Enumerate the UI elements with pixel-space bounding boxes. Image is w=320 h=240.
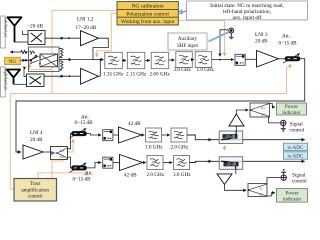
op-amp U5 (42 dB upper) bbox=[119, 127, 142, 143]
op-amp U7 (42 dB lower) bbox=[120, 155, 143, 171]
wire: junction into filter chain bbox=[93, 59, 103, 61]
wire: AT2 to equalizer B2 bbox=[87, 134, 102, 135]
yellow control box stack bbox=[117, 2, 178, 26]
wire FB1-FB2 bbox=[163, 162, 172, 164]
coupler X2 (directional coupler) bbox=[27, 74, 45, 87]
matching load resistor for NG (zigzag) bbox=[10, 50, 28, 53]
transfer switch inner crossed box bbox=[39, 54, 57, 67]
svg-text:Polarization control: Polarization control bbox=[126, 11, 169, 17]
svg-text:LNI 4: LNI 4 bbox=[30, 130, 43, 136]
power indicator 2 bbox=[277, 189, 308, 203]
matching load 2 (vertical zigzag) bbox=[59, 61, 63, 70]
wire: B2 to amp bbox=[113, 134, 118, 136]
wire: U6 to splitter X3 bbox=[236, 110, 248, 114]
wire: antenna A2 to coupler X2 bbox=[14, 83, 27, 85]
node: selector junction bbox=[99, 59, 101, 61]
op-amp U3 (LNI 3) bbox=[257, 51, 279, 68]
wire: AT3 to equalizer B3 bbox=[87, 163, 102, 168]
wire: U1 output loop to polarization selector bbox=[93, 38, 108, 59]
svg-text:LNI 3: LNI 3 bbox=[255, 32, 268, 38]
svg-text:20 dB: 20 dB bbox=[30, 137, 43, 143]
svg-text:0−15 dB: 0−15 dB bbox=[75, 120, 94, 126]
equalizer B2 bbox=[103, 130, 113, 141]
svg-text:left-hand polarization,: left-hand polarization, bbox=[223, 8, 272, 15]
op-amp U6 (detector amp up) bbox=[229, 114, 244, 126]
op-amp U2 (LNA bottom) bbox=[81, 68, 99, 84]
op-amp U8 (detector amp down) bbox=[217, 174, 232, 185]
svg-text:17−20 dB: 17−20 dB bbox=[76, 25, 97, 31]
op-amp U4 (LNI 4) bbox=[23, 145, 43, 159]
filter FB1 bbox=[147, 156, 163, 170]
svg-text:to ADC: to ADC bbox=[288, 154, 305, 160]
svg-text:2.15 GHz: 2.15 GHz bbox=[126, 72, 147, 78]
coupler C1 (-20 dB) bbox=[219, 131, 243, 144]
aux input connector (circle with dot) bbox=[229, 28, 234, 33]
wire: U3 to attenuator bbox=[279, 58, 286, 60]
wire: orange polarization control drop to selector switch bbox=[97, 13, 117, 56]
svg-text:amplification: amplification bbox=[21, 186, 49, 193]
wire: orange stub at coupler 1 bbox=[224, 146, 226, 151]
wire: NG injection stub into X1 bbox=[23, 31, 29, 35]
wire: orange control to lower attenuator bbox=[38, 172, 86, 178]
svg-text:NG calibration: NG calibration bbox=[132, 4, 164, 10]
svg-text:1.0 GHz: 1.0 GHz bbox=[145, 145, 163, 151]
antenna A1 bbox=[7, 17, 22, 42]
svg-text:Working from aux. input: Working from aux. input bbox=[121, 18, 175, 25]
wire: orange long tract-control line across middle bbox=[10, 67, 286, 189]
svg-text:control: control bbox=[290, 128, 305, 134]
initial state note box bbox=[187, 1, 308, 21]
wire: X4 to power indicator 2 bbox=[267, 193, 275, 196]
svg-text:Left-hand pol.: Left-hand pol. bbox=[3, 18, 7, 39]
wire F3-F4 bbox=[169, 59, 175, 61]
internal load resistor of transfer switch bbox=[30, 51, 36, 53]
filter FA1 bbox=[146, 128, 162, 142]
wire: U8 to splitter X4 bbox=[225, 185, 247, 191]
svg-text:0−15 dB: 0−15 dB bbox=[279, 41, 298, 47]
svg-text:Right-hand pol.: Right-hand pol. bbox=[3, 69, 7, 92]
wire F4-F5 bbox=[192, 59, 194, 61]
wire: antenna A1 to coupler X1 bbox=[15, 41, 29, 43]
svg-text:42 dB: 42 dB bbox=[128, 121, 141, 127]
attenuator AT2 (upper tract) bbox=[70, 129, 87, 138]
wire: NG line into X2 with arrow bbox=[24, 69, 27, 77]
wire: U7 to filter FB1 bbox=[143, 162, 146, 164]
detector D2 (circle) bbox=[281, 175, 286, 180]
wire: X2 to LNA U2 bbox=[44, 75, 64, 77]
ground above D2 bbox=[281, 170, 286, 175]
filter F4 bbox=[176, 52, 193, 68]
svg-text:aux. input off: aux. input off bbox=[232, 14, 261, 21]
attenuator AT3 (lower tract) bbox=[70, 163, 87, 172]
svg-text:Att.: Att. bbox=[282, 34, 290, 40]
wire: X3 to signal control detector bbox=[269, 117, 281, 123]
svg-text:LNI 1,2: LNI 1,2 bbox=[77, 17, 94, 23]
svg-text:3.0 GHz: 3.0 GHz bbox=[174, 67, 192, 73]
wire: splitter to upper attenuator bbox=[68, 134, 72, 149]
antenna A2 bbox=[6, 70, 21, 85]
power splitter PS1 bbox=[51, 147, 68, 160]
filter F3 bbox=[151, 52, 169, 68]
svg-text:1.35 GHz: 1.35 GHz bbox=[103, 72, 124, 78]
svg-text:1.0 GHz: 1.0 GHz bbox=[197, 67, 215, 73]
filter FA2 bbox=[171, 128, 187, 142]
splitter X3 bbox=[250, 103, 270, 118]
label box: Right-hand pol. bbox=[1, 67, 8, 97]
blue state arrow to aux connector bbox=[209, 32, 229, 42]
auxiliary SHF input box bbox=[168, 33, 207, 50]
equalizer B3 bbox=[103, 157, 113, 168]
svg-text:−20 dB: −20 dB bbox=[225, 163, 237, 167]
to ADC box 2 bbox=[284, 152, 308, 160]
wire: B1 to U3 bbox=[246, 58, 257, 60]
svg-text:−20 dB: −20 dB bbox=[27, 24, 43, 30]
wire FA1-FA2 bbox=[162, 134, 170, 136]
wire: orange top attenuator control arrow bbox=[287, 64, 291, 67]
wire F2-F3 bbox=[145, 59, 150, 61]
wire: aux connector drop to main line bbox=[220, 30, 228, 56]
wire: FB2 to coupler C2 and main output arrow bbox=[190, 161, 305, 162]
svg-text:2.60 GHz: 2.60 GHz bbox=[150, 72, 171, 78]
equalizer B1 bbox=[235, 54, 245, 65]
filter F1 bbox=[105, 52, 123, 68]
svg-text:control: control bbox=[292, 178, 307, 184]
svg-text:to ADC: to ADC bbox=[288, 145, 305, 151]
svg-text:indicator: indicator bbox=[282, 110, 301, 116]
ground under aux connector bbox=[229, 33, 234, 39]
filter FB2 bbox=[174, 156, 190, 170]
svg-text:control: control bbox=[28, 194, 43, 200]
wire F1-F2 bbox=[122, 59, 126, 61]
attenuator AT1 (0-15 dB, top) bbox=[283, 54, 300, 63]
transfer switch S1 (outer box) bbox=[29, 47, 60, 72]
wire: FA2 to coupler C1 and main output arrow bbox=[187, 135, 305, 140]
label box: Left-hand pol. bbox=[1, 16, 8, 48]
matching load 1 (vertical zigzag) bbox=[59, 49, 63, 58]
wire: C2 coupled port to detector amp bbox=[235, 169, 237, 174]
wire: U5 to filter FA1 bbox=[142, 134, 145, 136]
wire: feedback line to lower tract (down right, across, to LNI4) bbox=[16, 59, 305, 152]
svg-text:indicator: indicator bbox=[283, 196, 302, 202]
wire: U4 to splitter bbox=[43, 151, 51, 153]
splitter X4 bbox=[248, 184, 267, 198]
op-amp U1 (LNA top) bbox=[81, 31, 99, 46]
svg-text:3.0 GHz: 3.0 GHz bbox=[173, 172, 191, 178]
to ADC box 1 bbox=[284, 143, 308, 151]
coupler C2 (-20 dB) bbox=[219, 157, 243, 170]
tract amplification control box bbox=[14, 179, 57, 202]
svg-text:20 dB: 20 dB bbox=[255, 39, 268, 45]
wire: orange control bus top (NG calibration) bbox=[52, 10, 117, 93]
NG source box bbox=[5, 57, 21, 65]
wire: X3 to power indicator 1 bbox=[270, 104, 275, 108]
wire: X4 to signal control detector 2 bbox=[267, 178, 281, 184]
wire: U2 output to polarization selector bbox=[98, 60, 100, 77]
detector D1 (circle) bbox=[281, 120, 286, 125]
svg-text:NG: NG bbox=[9, 59, 17, 65]
svg-text:42 dB: 42 dB bbox=[124, 173, 137, 179]
wire: F5 to equalizer with junctions bbox=[212, 59, 234, 61]
wire: orange aux-input control drop bbox=[178, 21, 224, 56]
wire: splitter to lower attenuator bbox=[68, 157, 72, 168]
wire: transfer switch main output bbox=[59, 59, 72, 61]
svg-text:Auxiliary: Auxiliary bbox=[178, 37, 198, 42]
svg-text:Att.: Att. bbox=[85, 171, 93, 177]
switch: NG to load / to coupler bbox=[20, 52, 37, 61]
svg-text:2.0 GHz: 2.0 GHz bbox=[147, 172, 165, 178]
power indicator 1 bbox=[277, 103, 307, 116]
wire: orange branch to NG switch with up arrow bbox=[30, 64, 53, 70]
svg-text:2.0 GHz: 2.0 GHz bbox=[171, 145, 189, 151]
wire: X1 to LNA U1 bbox=[45, 37, 64, 39]
wire: B3 to amp U7 bbox=[113, 162, 119, 164]
svg-text:SHF input: SHF input bbox=[177, 44, 198, 49]
wire: C1 coupled port to detector amp bbox=[235, 126, 237, 131]
svg-text:Tract: Tract bbox=[30, 181, 41, 187]
ground under D1 bbox=[281, 126, 286, 132]
blue state arrow at polarization control bbox=[178, 10, 187, 14]
coupler X1 (directional coupler, -20 dB) bbox=[28, 31, 45, 45]
wire: orange control to upper attenuator bbox=[52, 139, 73, 178]
filter F2 bbox=[127, 52, 145, 68]
svg-text:0−15 dB: 0−15 dB bbox=[73, 177, 92, 183]
internal switch blades bbox=[31, 56, 39, 63]
svg-text:−20 dB: −20 dB bbox=[224, 135, 236, 139]
filter F5 bbox=[195, 52, 212, 68]
